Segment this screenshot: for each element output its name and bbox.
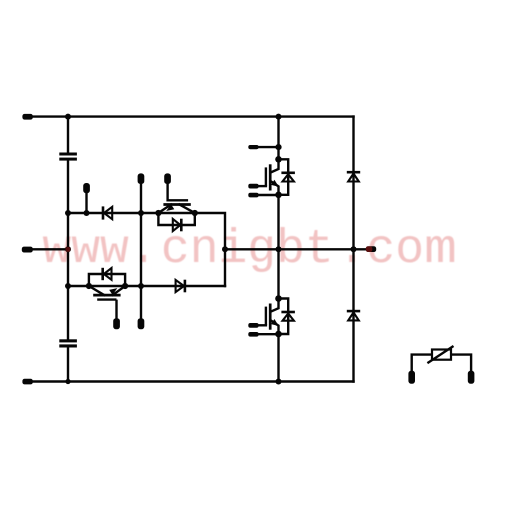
- node chopper upper / aux stub: [84, 210, 90, 216]
- thermistor RT1: [412, 347, 471, 371]
- diode D1 (series, cathode left): [103, 206, 112, 219]
- node Q3 collector / D5: [275, 156, 282, 163]
- terminal P (DC+ top left): [22, 114, 32, 120]
- wire left vertical (DC link): [67, 117, 69, 382]
- svg-text:www.: www.: [42, 223, 157, 277]
- wire bottom bus: [30, 380, 354, 382]
- wire chopper upper rail: [68, 213, 225, 286]
- svg-text:m: m: [424, 223, 457, 277]
- diode D7 (right bus upper, cathode up): [347, 172, 360, 181]
- diode D6 (anti-parallel of Q4): [279, 299, 295, 335]
- terminal RT1 right: [468, 371, 475, 384]
- wire right vertical bus: [352, 117, 354, 382]
- capacitor C2: [59, 339, 77, 347]
- svg-text:cnigbt: cnigbt: [161, 223, 334, 277]
- terminal AC output (right): [366, 246, 376, 252]
- watermark www.cnigbt.com: [42, 223, 457, 277]
- node midpoint / left vertical: [65, 246, 71, 252]
- wire Q4 emitter to bottom bus: [277, 334, 279, 382]
- transistor Q4 (lower half-bridge IGBT): [248, 299, 278, 337]
- transistor Q2 (chopper IGBT, horizontal mirrored): [89, 286, 125, 329]
- node Q4 collector / D6: [275, 295, 282, 302]
- node Q4 emitter: [275, 331, 282, 338]
- capacitor C1: [59, 153, 77, 161]
- node chopper lower / gate bus vertical: [138, 283, 144, 289]
- node bottom bus / Q4 emitter: [276, 379, 282, 385]
- diode D3 (anti-parallel of Q2, cathode left): [89, 268, 125, 286]
- wire phase bus (middle right): [225, 248, 366, 250]
- diode D2 (anti-parallel of Q1): [158, 213, 194, 231]
- node chopper upper / left vertical: [65, 210, 71, 216]
- terminal N (DC- bottom left): [22, 379, 32, 385]
- wire chopper lower rail: [68, 285, 225, 287]
- node phase / half-bridge midpoint: [276, 246, 282, 252]
- node Q2 collector: [86, 283, 92, 289]
- terminal gate bus top: [138, 173, 145, 184]
- node phase / chopper branch: [222, 246, 228, 252]
- transistor Q3 (upper half-bridge IGBT): [248, 159, 278, 197]
- node chopper lower / left vertical: [65, 283, 71, 289]
- terminal Q3 collector aux: [248, 145, 278, 149]
- terminal DC midpoint (left middle): [22, 247, 33, 253]
- wire Q3 collector: [277, 117, 279, 160]
- red tint on output terminal cap (watermark overlap): [366, 246, 373, 252]
- transistor Q1 (chopper IGBT, horizontal): [158, 173, 194, 213]
- node top bus / Q3 collector: [276, 114, 282, 120]
- node Q3 emitter: [275, 192, 282, 199]
- wire middle left stub: [30, 248, 68, 250]
- terminal aux stub (x86): [83, 183, 90, 213]
- wire top bus: [30, 115, 354, 117]
- diode D8 (right bus lower, cathode up): [347, 311, 360, 320]
- wire gate bus vertical (x141): [140, 183, 142, 319]
- terminal gate bus bottom: [138, 318, 145, 329]
- diode D5 (anti-parallel of Q3): [279, 159, 295, 195]
- node Q1 collector: [192, 210, 198, 216]
- svg-text:.co: .co: [338, 223, 424, 277]
- node top bus / C1 branch: [65, 114, 71, 120]
- wire Q3 emitter to midpoint: [277, 195, 279, 250]
- red tint on midpoint node (watermark overlap): [65, 247, 70, 252]
- node chopper upper / gate bus vertical: [138, 210, 144, 216]
- node phase / right vertical: [351, 246, 357, 252]
- node Q2 emitter: [122, 283, 128, 289]
- wire Q4 collector: [277, 249, 279, 298]
- node bottom bus / C2 branch: [65, 379, 70, 384]
- node Q1 emitter: [155, 210, 161, 216]
- diode D4 (series on lower rail, cathode right): [176, 280, 185, 293]
- terminal RT1 left: [408, 371, 415, 384]
- node Q3 collector aux: [275, 144, 281, 150]
